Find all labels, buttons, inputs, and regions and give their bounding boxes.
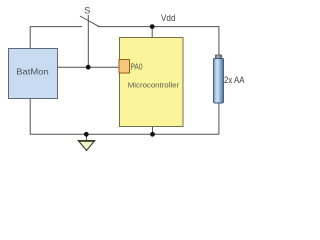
svg-text:Vdd: Vdd (161, 13, 176, 23)
svg-text:BatMon: BatMon (16, 67, 49, 76)
svg-text:2x AA: 2x AA (224, 75, 245, 85)
block Microcontroller U1 (120, 38, 184, 127)
switch S lever (80, 16, 100, 27)
svg-text:Microcontroller: Microcontroller (128, 80, 180, 89)
block BatMon (9, 49, 58, 99)
wire Vdd drop to microcontroller (151, 27, 153, 38)
ground (78, 141, 95, 151)
svg-text:S: S (84, 5, 90, 15)
wire battery bottom drop (218, 103, 220, 134)
wire top rail left segment (30, 26, 82, 28)
svg-text:PA0: PA0 (131, 63, 143, 72)
wire BatMon bottom drop (29, 99, 31, 135)
node ground junction dot (84, 132, 89, 137)
node microcontroller ground junction dot (150, 132, 155, 137)
switch S vertical pole (87, 15, 89, 67)
wire left drop to BatMon (29, 27, 31, 49)
wire bottom ground rail (30, 133, 219, 135)
wire BatMon to PA0 (58, 66, 120, 68)
pin PA0 (119, 60, 143, 74)
wire microcontroller ground stub (152, 127, 154, 135)
battery 2x AA (214, 55, 245, 103)
wire ground stub (85, 134, 87, 140)
wire top rail right segment to battery (98, 27, 219, 56)
node switch/PA0 junction dot (86, 65, 91, 70)
node Vdd junction dot (150, 24, 155, 29)
